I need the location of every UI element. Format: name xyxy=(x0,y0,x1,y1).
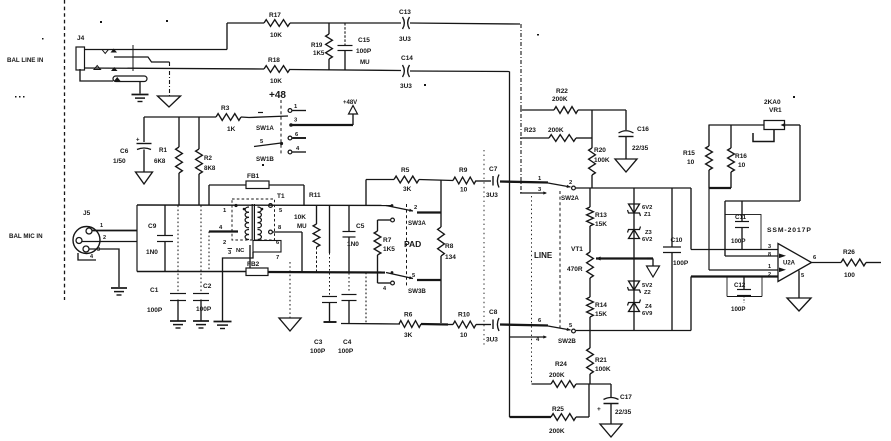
svg-text:Z2: Z2 xyxy=(644,290,651,296)
resistor R25 xyxy=(549,406,576,435)
svg-text:10: 10 xyxy=(460,332,468,339)
svg-text:Z1: Z1 xyxy=(644,212,652,218)
svg-text:R18: R18 xyxy=(268,57,280,64)
svg-text:200K: 200K xyxy=(549,428,565,435)
T1 pin 5 xyxy=(269,204,283,214)
T1 pin 8 wire xyxy=(269,225,302,234)
T1 shield wire xyxy=(223,252,254,321)
op-amp U2A xyxy=(778,244,812,282)
ground under T1 xyxy=(279,318,301,331)
svg-text:SW2A: SW2A xyxy=(561,195,579,202)
svg-text:3K: 3K xyxy=(404,332,413,339)
capacitor C6 xyxy=(113,117,152,172)
zener Z3 xyxy=(628,227,653,244)
wire R5 to R9 xyxy=(419,180,453,181)
svg-text:10K: 10K xyxy=(270,78,282,85)
resistor R14 xyxy=(587,278,608,331)
wire R22 to C16 xyxy=(578,109,626,111)
svg-text:R21: R21 xyxy=(595,357,607,364)
scan speck xyxy=(15,20,795,166)
wire J4 chassis xyxy=(169,62,171,96)
wire SW3B out xyxy=(417,280,441,323)
svg-text:100P: 100P xyxy=(356,48,372,55)
svg-text:1N0: 1N0 xyxy=(146,249,158,256)
wire line feed upper (dash-dot) xyxy=(520,24,522,193)
svg-text:SW1B: SW1B xyxy=(256,156,274,163)
wire C14 to line select xyxy=(410,70,510,73)
svg-text:1K5: 1K5 xyxy=(383,246,395,253)
wire mic cold rail b xyxy=(268,271,385,274)
capacitor C3 xyxy=(310,206,337,355)
svg-text:R1: R1 xyxy=(159,147,167,154)
ground J4 sleeve xyxy=(132,95,149,102)
switch gang SW1 (dashed) xyxy=(280,100,282,155)
op-amp input marks xyxy=(779,254,786,273)
capacitor C11 xyxy=(725,201,761,250)
svg-text:R15: R15 xyxy=(683,150,695,157)
svg-text:5V2: 5V2 xyxy=(642,283,652,289)
switch SW1B xyxy=(254,132,306,163)
capacitor C1 xyxy=(147,206,186,321)
svg-text:3U3: 3U3 xyxy=(400,83,412,90)
svg-text:6V2: 6V2 xyxy=(642,237,652,243)
VR1 wiper wire xyxy=(753,123,785,142)
switch SW2B xyxy=(538,318,576,345)
capacitor C16 xyxy=(619,110,650,159)
resistor R11 xyxy=(294,192,321,273)
svg-text:C1: C1 xyxy=(150,287,159,294)
wire C7 to SW2A xyxy=(500,182,548,183)
resistor R13 xyxy=(587,188,608,252)
capacitor C15 xyxy=(338,23,372,70)
svg-text:SW2B: SW2B xyxy=(558,338,576,345)
svg-text:3: 3 xyxy=(768,244,771,250)
capacitor C8 xyxy=(486,309,499,344)
resistor R23 xyxy=(524,127,576,141)
svg-text:C7: C7 xyxy=(489,166,498,173)
zener Z2 xyxy=(628,281,653,296)
svg-text:R11: R11 xyxy=(309,192,321,199)
resistor R10 xyxy=(453,312,476,340)
svg-text:LINE: LINE xyxy=(534,251,553,260)
svg-text:Z3: Z3 xyxy=(645,230,653,236)
ground C1 xyxy=(170,321,186,328)
switch SW3A xyxy=(386,204,426,227)
svg-text:SSM-2017P: SSM-2017P xyxy=(767,227,812,234)
wire R24 feed xyxy=(532,383,552,385)
wire R18 to C14 xyxy=(290,70,401,71)
capacitor C7 xyxy=(486,166,499,199)
svg-text:100P: 100P xyxy=(731,238,745,245)
wire C13 to line select xyxy=(410,23,520,24)
wire mic hot rail xyxy=(137,204,392,207)
svg-text:+48V: +48V xyxy=(343,100,357,106)
ground J5 xyxy=(111,288,127,295)
svg-text:R8: R8 xyxy=(445,243,454,250)
resistor R18 xyxy=(264,57,290,85)
svg-text:100P: 100P xyxy=(147,307,163,314)
T1 pin 1 xyxy=(223,204,238,214)
svg-text:C16: C16 xyxy=(637,126,649,133)
svg-text:2: 2 xyxy=(414,205,417,211)
svg-text:R17: R17 xyxy=(269,12,281,19)
ferrite bead FB2 xyxy=(246,261,268,276)
VT1 wiper xyxy=(596,257,647,261)
wire -in feed xyxy=(691,277,778,331)
svg-text:3: 3 xyxy=(97,247,100,253)
resistor R24 xyxy=(549,361,576,387)
svg-text:R2: R2 xyxy=(204,155,212,162)
svg-text:C8: C8 xyxy=(489,309,498,316)
label BAL LINE IN xyxy=(7,57,44,64)
switch SW3B xyxy=(383,271,426,295)
svg-text:+48: +48 xyxy=(269,90,286,101)
zener Z1 xyxy=(628,204,653,218)
svg-text:10K: 10K xyxy=(270,32,282,39)
svg-text:1: 1 xyxy=(768,264,771,270)
svg-text:22/35: 22/35 xyxy=(615,409,632,416)
SW2A pin3 wire xyxy=(520,187,547,195)
svg-text:C6: C6 xyxy=(120,148,129,155)
wire pad top feed xyxy=(366,180,394,206)
svg-text:100P: 100P xyxy=(673,260,689,267)
svg-text:R24: R24 xyxy=(555,361,567,368)
ground T1 shield xyxy=(214,322,232,329)
svg-text:100K: 100K xyxy=(595,366,611,373)
wire J5 pin1 ground xyxy=(89,249,119,287)
svg-text:8: 8 xyxy=(768,252,771,258)
svg-text:100P: 100P xyxy=(731,306,745,313)
svg-text:R14: R14 xyxy=(595,302,607,309)
transformer T1 windings xyxy=(243,207,264,240)
ferrite bead FB1 xyxy=(209,173,304,205)
resistor R7 xyxy=(374,218,395,285)
wire pin5 ground xyxy=(799,271,805,299)
wire SW3A out xyxy=(417,211,441,213)
wire pad ground rail xyxy=(341,323,400,326)
svg-text:1K5: 1K5 xyxy=(313,50,325,57)
svg-text:C4: C4 xyxy=(343,339,352,346)
resistor R2 xyxy=(196,117,216,205)
svg-text:200K: 200K xyxy=(549,372,565,379)
svg-text:22/35: 22/35 xyxy=(632,145,649,152)
svg-text:C13: C13 xyxy=(399,9,411,16)
potentiometer VR1 xyxy=(709,99,785,130)
wire cold drop xyxy=(365,273,367,324)
page border (dashed) xyxy=(64,0,66,300)
switch gang SW3 (dashed) xyxy=(406,204,408,288)
wire R24 to C17 xyxy=(576,383,611,385)
svg-text:10: 10 xyxy=(687,159,695,166)
svg-text:1N0: 1N0 xyxy=(347,241,359,248)
label +48 xyxy=(269,90,286,101)
svg-text:100P: 100P xyxy=(338,348,354,355)
svg-text:3K: 3K xyxy=(403,186,412,193)
svg-text:SW3A: SW3A xyxy=(408,220,426,227)
svg-text:3U3: 3U3 xyxy=(486,337,498,344)
svg-text:3U3: 3U3 xyxy=(486,192,498,199)
transformer T1 core xyxy=(252,204,254,240)
svg-text:R23: R23 xyxy=(524,127,536,134)
svg-text:NC: NC xyxy=(236,248,245,254)
wire R23 to R20 xyxy=(576,137,592,139)
wire R17 to C13 xyxy=(290,22,401,24)
resistor R26 xyxy=(841,249,866,279)
ground C2 xyxy=(193,321,209,328)
svg-text:VR1: VR1 xyxy=(769,107,782,114)
svg-text:15K: 15K xyxy=(595,221,607,228)
J4 ring contact xyxy=(94,66,118,72)
wire zener column xyxy=(633,188,635,331)
resistor R8 xyxy=(438,181,457,281)
svg-text:R9: R9 xyxy=(459,167,468,174)
wire R10 to C8 xyxy=(476,324,491,326)
wire R9 to C7 xyxy=(476,180,491,182)
ground op-amp xyxy=(787,298,811,311)
svg-text:C17: C17 xyxy=(620,394,632,401)
resistor R3 xyxy=(216,105,241,133)
svg-text:6V2: 6V2 xyxy=(642,205,652,211)
svg-text:7: 7 xyxy=(276,255,279,261)
J4 switch contact row xyxy=(114,57,170,62)
shield line (dotted) xyxy=(483,150,485,345)
svg-text:15K: 15K xyxy=(595,311,607,318)
T1 pin 2 xyxy=(223,240,226,246)
svg-text:R13: R13 xyxy=(595,212,607,219)
wiper ground arrow xyxy=(647,259,660,278)
label SSM-2017P xyxy=(767,227,812,234)
svg-text:U2A: U2A xyxy=(783,261,796,267)
svg-text:FB1: FB1 xyxy=(247,173,260,180)
svg-text:R7: R7 xyxy=(383,237,392,244)
svg-text:SW1A: SW1A xyxy=(256,125,274,132)
svg-text:1/50: 1/50 xyxy=(113,158,126,165)
svg-text:FB2: FB2 xyxy=(247,261,260,268)
svg-text:R19: R19 xyxy=(311,42,323,49)
wire J4 tip to R17 xyxy=(85,23,265,71)
svg-text:134: 134 xyxy=(445,254,456,261)
wire VR1 to pin8 xyxy=(725,125,800,256)
capacitor C17 xyxy=(597,384,632,424)
wire FB1 right drop xyxy=(303,185,305,206)
svg-text:6V9: 6V9 xyxy=(642,311,653,317)
T1 pin 4 wire xyxy=(209,225,238,232)
svg-text:R10: R10 xyxy=(458,312,470,319)
svg-text:3U3: 3U3 xyxy=(399,36,411,43)
resistor R6 xyxy=(399,312,421,340)
resistor R17 xyxy=(264,12,290,39)
wire R15 R16 join xyxy=(709,188,778,270)
shield ground stem (dotted) xyxy=(289,262,291,318)
capacitor C10 xyxy=(663,188,689,331)
svg-text:2KA0: 2KA0 xyxy=(764,99,781,106)
resistor R15 xyxy=(683,125,712,189)
wire R22 feed xyxy=(520,109,554,111)
svg-text:BAL LINE IN: BAL LINE IN xyxy=(7,57,44,64)
svg-text:1K: 1K xyxy=(227,126,236,133)
svg-text:VT1: VT1 xyxy=(571,246,583,253)
zener Z4 xyxy=(628,300,654,318)
wire R6 to R10 xyxy=(421,323,453,326)
wire mic/line bottom rail xyxy=(576,330,691,332)
svg-text:C12: C12 xyxy=(734,282,746,289)
svg-text:C9: C9 xyxy=(148,223,157,230)
svg-text:MU: MU xyxy=(297,223,307,230)
SW2B pin4 wire xyxy=(510,335,548,343)
capacitor C13 xyxy=(399,9,411,43)
svg-text:Z4: Z4 xyxy=(645,304,653,310)
transformer T1 box xyxy=(232,193,285,240)
svg-text:8K8: 8K8 xyxy=(204,165,216,172)
svg-text:2: 2 xyxy=(223,240,226,246)
J4 tip contact xyxy=(102,49,117,54)
T1 pin 7 loop xyxy=(250,241,281,269)
svg-text:+: + xyxy=(136,138,140,144)
switch SW2A xyxy=(538,176,579,202)
svg-text:10K: 10K xyxy=(294,214,306,221)
svg-text:C10: C10 xyxy=(671,237,683,244)
capacitor C9 xyxy=(146,205,173,272)
wire SW1A pin3 to +48V xyxy=(292,114,353,125)
svg-text:C14: C14 xyxy=(401,55,413,62)
svg-text:R26: R26 xyxy=(843,249,855,256)
svg-text:1: 1 xyxy=(100,223,103,229)
resistor R20 xyxy=(589,110,610,188)
svg-text:100K: 100K xyxy=(594,157,610,164)
resistor R5 xyxy=(394,167,419,193)
resistor R16 xyxy=(728,125,748,189)
trimmer VT1 xyxy=(567,246,593,278)
wire J5 junction xyxy=(136,205,138,272)
label BAL MIC IN xyxy=(9,233,43,240)
svg-text:6K8: 6K8 xyxy=(154,158,166,165)
svg-text:C11: C11 xyxy=(735,214,747,221)
line feed to R24 (dotted) xyxy=(531,196,533,384)
resistor R19 xyxy=(311,23,332,70)
svg-text:470R: 470R xyxy=(567,266,583,273)
T1 pin 6 xyxy=(276,240,280,246)
svg-text:200K: 200K xyxy=(552,96,568,103)
wire R3 to SW1A xyxy=(241,116,249,119)
label LINE xyxy=(534,251,553,260)
svg-text:100: 100 xyxy=(844,272,855,279)
svg-text:R3: R3 xyxy=(221,105,230,112)
svg-text:C2: C2 xyxy=(203,283,212,290)
wire mic/line top rail xyxy=(576,187,691,189)
svg-text:C5: C5 xyxy=(356,223,365,230)
J4 switch blade xyxy=(113,76,147,82)
wire C8 to SW2B xyxy=(500,325,548,326)
switch SW1A xyxy=(249,104,306,132)
svg-text:100P: 100P xyxy=(310,348,326,355)
svg-text:2: 2 xyxy=(103,235,106,241)
svg-text:R16: R16 xyxy=(735,153,747,160)
wire output right xyxy=(866,262,881,264)
op-amp pin labels xyxy=(768,244,771,278)
resistor R9 xyxy=(453,167,476,194)
svg-text:R20: R20 xyxy=(594,147,606,154)
T1 pin 8 drop xyxy=(301,232,303,272)
svg-text:J5: J5 xyxy=(83,210,91,217)
svg-text:BAL MIC IN: BAL MIC IN xyxy=(9,233,43,240)
wire output xyxy=(812,255,842,263)
wire line feed lower xyxy=(509,72,511,418)
connector J4 xyxy=(76,35,85,70)
ground C6 xyxy=(136,172,153,184)
svg-text:R6: R6 xyxy=(404,312,413,319)
capacitor C14 xyxy=(400,55,413,90)
wire R25 to junction xyxy=(576,384,589,417)
wire mic cold rail a xyxy=(137,271,246,273)
svg-text:C15: C15 xyxy=(358,37,370,44)
capacitor C2 xyxy=(193,206,212,321)
wire R25 feed xyxy=(510,416,552,418)
resistor R22 xyxy=(552,88,578,113)
switch gang SW2 (dashed) xyxy=(559,191,561,328)
resistor R1 xyxy=(154,117,182,205)
svg-text:10: 10 xyxy=(460,187,468,194)
+48V arrow xyxy=(343,100,358,114)
J5 shell tab xyxy=(78,253,96,260)
T1 pin 3 NC xyxy=(228,248,246,256)
ground J4 chassis xyxy=(158,96,181,107)
svg-text:2: 2 xyxy=(569,180,572,186)
wire J5 pin3 xyxy=(82,242,137,254)
svg-text:2: 2 xyxy=(768,272,771,278)
svg-text:R22: R22 xyxy=(556,88,568,95)
svg-text:C3: C3 xyxy=(314,339,323,346)
svg-text:R25: R25 xyxy=(552,406,564,413)
svg-text:200K: 200K xyxy=(548,127,564,134)
wire R23 feed xyxy=(520,137,549,139)
svg-text:10: 10 xyxy=(738,162,746,169)
wire J4 sleeve xyxy=(80,69,140,94)
wire +in feed xyxy=(691,188,778,250)
wire J5 pin2 xyxy=(92,223,137,241)
resistor R21 xyxy=(587,331,611,385)
svg-text:SW3B: SW3B xyxy=(408,288,426,295)
connector J5 xyxy=(73,210,100,254)
capacitor C5 xyxy=(343,206,365,273)
svg-text:J4: J4 xyxy=(77,35,85,42)
wire J4 ring to R18 xyxy=(85,68,265,69)
ground C16 xyxy=(615,159,637,172)
label PAD xyxy=(404,239,421,249)
svg-text:MU: MU xyxy=(360,59,370,66)
ground C17 xyxy=(600,424,622,437)
capacitor C12 xyxy=(727,277,762,314)
svg-text:+: + xyxy=(597,406,601,413)
T1 pin 4 drop (dotted) xyxy=(208,232,210,272)
svg-text:R5: R5 xyxy=(401,167,410,174)
wire phantom rail xyxy=(144,116,216,118)
svg-text:100P: 100P xyxy=(196,306,212,313)
svg-text:T1: T1 xyxy=(277,193,285,200)
capacitor C4 xyxy=(338,273,357,355)
